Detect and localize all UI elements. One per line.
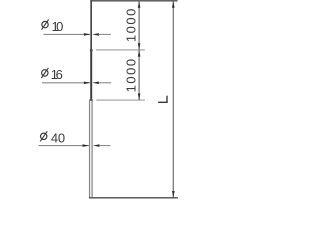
svg-text:1000: 1000 (123, 57, 138, 92)
rod section d10 (90, 0, 92, 50)
label d40 diameter symbol slash (40, 131, 47, 141)
label d10 diameter symbol slash (42, 20, 49, 30)
svg-text:1000: 1000 (123, 7, 138, 42)
label L foot (166, 96, 168, 103)
arrow d10 left (84, 33, 90, 36)
rod transition nub d10-d16 (90, 49, 93, 51)
arrow d16 right (92, 82, 99, 85)
dimension line L (172, 1, 174, 197)
tail d16 right (99, 82, 112, 84)
svg-text:16: 16 (51, 67, 63, 82)
rod section d16 (90, 50, 92, 101)
arrow 1000 lower bottom (138, 94, 141, 101)
tail d40 right (99, 145, 110, 147)
arrow d40 left (83, 144, 89, 147)
arrow d16 left (84, 82, 90, 85)
arrow 1000 upper bottom (138, 43, 141, 50)
label d10 diameter symbol circle (42, 21, 48, 27)
technical dimension drawing of air-termination rod (0, 0, 220, 200)
arrow d40 right (93, 144, 100, 147)
rod transition nub d16-d40 (89, 99, 92, 101)
rod section d40 right outline (91, 100, 93, 198)
svg-text:40: 40 (51, 130, 65, 145)
extension line at second transition (96, 99, 145, 101)
extension line at first transition (96, 49, 145, 51)
tail d10 right (99, 33, 111, 35)
svg-text:10: 10 (52, 19, 64, 34)
arrow 1000 lower top (138, 50, 141, 57)
bottom extension line (89, 197, 178, 199)
arrow 1000 upper top (138, 1, 141, 8)
dimension line d10 (44, 33, 91, 35)
label d16 diameter symbol slash (41, 68, 48, 78)
dimension line 1000 lower (138, 50, 140, 100)
arrow d10 right (92, 33, 99, 36)
arrow L top (172, 1, 175, 8)
top extension line (90, 0, 177, 2)
dimension line 1000 upper (138, 1, 140, 50)
rod section d40 left outline (89, 100, 91, 198)
arrow L bottom (172, 191, 175, 198)
label d16 diameter symbol circle (42, 70, 48, 76)
dimension line d40 (39, 145, 89, 147)
dimension line d16 (42, 82, 90, 84)
label d40 diameter symbol circle (41, 133, 47, 139)
label L stem (158, 101, 168, 103)
